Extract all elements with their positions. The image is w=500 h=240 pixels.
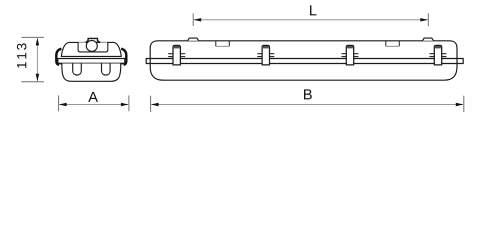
lid (top housing) <box>61 42 121 56</box>
dim B line <box>152 104 463 106</box>
latch clip 2 (side view) <box>257 45 274 65</box>
flange band (end view) <box>58 59 125 64</box>
dim B extension line right <box>463 96 465 112</box>
lamp tube left (end) <box>73 64 82 76</box>
dim A line <box>60 104 128 106</box>
arrow L right <box>420 18 428 21</box>
label B <box>304 89 312 99</box>
latch clip left (end view, black) <box>56 49 61 65</box>
label L <box>310 5 316 15</box>
gland box on lid <box>78 42 108 52</box>
dim A extension line left <box>58 95 60 111</box>
dim 113 line <box>36 38 38 80</box>
label 113 (rotated) <box>17 43 27 68</box>
lamp tube right (end) <box>102 64 111 76</box>
gland circle <box>86 40 97 51</box>
band bottom accent (end view) <box>58 63 124 65</box>
dim B extension line left <box>150 96 152 112</box>
arrow A right <box>121 103 129 106</box>
arrow L left <box>194 18 202 21</box>
dim L extension line left <box>192 13 194 26</box>
arrow 113 bottom <box>36 74 39 82</box>
arrow A left <box>59 103 67 106</box>
dim A extension line right <box>128 95 130 111</box>
label A <box>88 92 98 102</box>
body outline (side view) <box>150 41 457 80</box>
arrow B left <box>151 103 159 106</box>
dim L line <box>194 19 427 21</box>
dim 113 extension tick top <box>22 36 45 38</box>
arrow B right <box>456 103 464 106</box>
arrow 113 top <box>36 38 39 46</box>
latch clip 4 (side view) <box>430 45 447 65</box>
diffuser bowl <box>62 64 121 82</box>
flange band (side view) <box>146 59 463 64</box>
top recess rect right <box>386 41 400 47</box>
latch clip 1 (side view) <box>168 45 185 65</box>
latch clip right (end view, black) <box>121 49 126 65</box>
dim 113 extension tick bottom <box>22 81 45 83</box>
gland cap <box>86 38 100 42</box>
top suspension tab left <box>188 38 199 41</box>
top recess rect left <box>216 41 230 47</box>
dim L extension line right <box>427 13 429 26</box>
latch clip 3 (side view) <box>342 45 359 65</box>
top suspension tab right <box>422 38 433 41</box>
